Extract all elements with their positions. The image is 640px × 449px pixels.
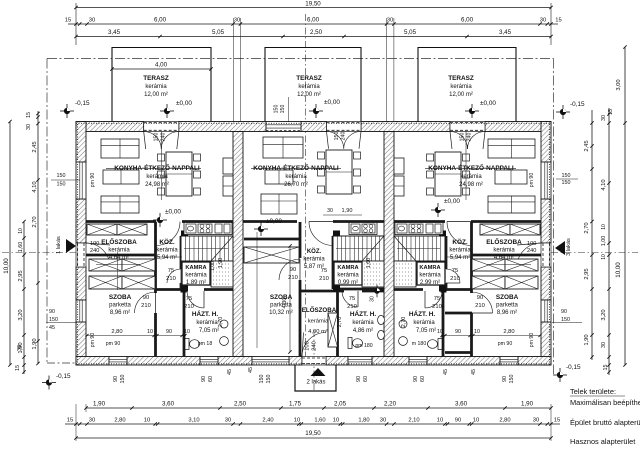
apt2 sofa 1 [263,137,303,158]
svg-text:240: 240 [90,248,99,254]
apt1 washer [220,337,229,346]
svg-text:±0,00: ±0,00 [176,100,192,107]
svg-text:10: 10 [473,418,479,424]
svg-text:0,99 m²: 0,99 m² [338,280,358,286]
apt3 washer [399,337,408,346]
svg-text:150: 150 [154,133,160,142]
svg-text:-0,15: -0,15 [570,101,585,108]
svg-text:1,90: 1,90 [342,208,353,214]
svg-text:75: 75 [186,296,192,302]
svg-text:10: 10 [437,418,443,424]
svg-text:SZOBA: SZOBA [496,294,519,301]
svg-text:2,45: 2,45 [32,141,38,152]
apt3 wardrobes elo [480,224,510,235]
bottom dim total [76,437,551,439]
svg-text:2,50: 2,50 [310,29,323,36]
entrance door apt1 [76,243,86,267]
svg-text:kerámia: kerámia [285,174,307,180]
svg-text:kerámia: kerámia [308,319,329,325]
entrance door apt3 [541,243,551,267]
unit split line [305,14,307,362]
apt1 hazt door arc [187,291,204,308]
svg-text:210: 210 [288,275,298,281]
svg-text:15: 15 [608,109,614,115]
svg-text:150: 150 [280,105,286,114]
svg-text:pm 90: pm 90 [90,333,96,348]
right dim col upper [591,110,593,360]
apt1 szoba dim [87,335,186,337]
svg-text:ELŐSZOBA: ELŐSZOBA [302,307,337,314]
svg-text:90: 90 [356,376,362,382]
terrace door apt1 [144,122,179,132]
svg-text:m 180: m 180 [412,341,427,347]
apt1 dining table [166,152,192,196]
svg-text:kerámia: kerámia [108,248,130,254]
svg-text:150: 150 [57,182,66,188]
terrace 1 [112,48,211,122]
svg-text:75: 75 [349,296,355,302]
svg-text:2,20: 2,20 [384,401,397,408]
svg-text:5,94 m²: 5,94 m² [450,255,470,261]
svg-text:30: 30 [234,18,240,24]
terrace door apt3 [450,122,485,132]
svg-text:210: 210 [450,276,460,282]
svg-text:75: 75 [321,268,327,274]
svg-text:30: 30 [17,345,23,351]
svg-text:24,98 m²: 24,98 m² [459,182,483,188]
svg-text:KÖZ.: KÖZ. [159,237,174,246]
svg-text:12,00 m²: 12,00 m² [449,92,473,98]
leader line apt3 koz [445,256,471,258]
apt1 coffee table [103,170,139,184]
svg-text:10,32 m²: 10,32 m² [269,310,293,316]
apt1 koz bottom / hazt top [155,288,186,291]
outer wall top [76,122,144,132]
svg-text:150: 150 [509,375,515,384]
svg-text:±0,00: ±0,00 [266,218,282,225]
svg-text:kerámia: kerámia [460,174,482,180]
svg-text:kerámia: kerámia [185,273,207,279]
apt1 vertical partition elo/koz [154,222,157,293]
svg-text:150: 150 [259,375,265,384]
svg-text:2,70: 2,70 [218,317,224,328]
svg-text:1,89 m²: 1,89 m² [186,280,206,286]
level markers [60,104,74,118]
svg-text:150: 150 [562,173,571,179]
leader line apt2 title [251,167,341,169]
apt2 entrance porch [295,365,336,391]
svg-text:1,90: 1,90 [93,401,106,408]
svg-text:4,64 m²: 4,64 m² [109,255,129,261]
apt1 wardrobes elo [87,224,117,235]
svg-text:150: 150 [460,133,466,142]
apt2 dining table [326,150,352,194]
svg-text:90: 90 [413,376,419,382]
svg-text:24,98 m²: 24,98 m² [145,182,169,188]
stairs apt2 [333,236,384,261]
svg-text:3,20: 3,20 [601,309,607,320]
svg-text:10,00: 10,00 [3,258,10,274]
svg-text:HÁZT. H.: HÁZT. H. [409,309,435,318]
svg-text:90: 90 [201,376,207,382]
svg-text:2,95: 2,95 [584,268,590,279]
partition living/back apt1 [86,220,156,223]
svg-text:19,50: 19,50 [305,1,321,8]
svg-text:-0,15: -0,15 [56,373,71,380]
svg-text:15: 15 [67,418,73,424]
stairs apt3 [394,236,445,261]
svg-text:2,50: 2,50 [234,401,247,408]
apt3 sink [399,320,407,328]
apt2 szoba door arc [279,259,300,280]
apt1 wardrobes szoba [89,259,122,271]
svg-text:SZOBA: SZOBA [109,294,132,301]
apt2 wardrobes szoba [244,247,299,263]
svg-text:12,00 m²: 12,00 m² [297,92,321,98]
svg-text:8,96 m²: 8,96 m² [110,310,130,316]
apt2 vertical partition szoba/koz [299,222,302,258]
svg-text:2,10: 2,10 [408,418,419,424]
svg-text:pm 90: pm 90 [106,341,121,347]
svg-text:4,30: 4,30 [282,298,288,309]
svg-text:210: 210 [141,303,151,309]
svg-text:kerámia: kerámia [156,248,178,254]
svg-text:kerámia: kerámia [196,320,218,326]
leader line apt3 title [425,167,516,169]
svg-text:±0,00: ±0,00 [480,100,496,107]
svg-text:30: 30 [327,208,333,214]
svg-text:-0,15: -0,15 [566,364,581,371]
apt1 lobby/hazt.h partition [183,289,186,357]
apt3 dining table [435,152,461,196]
right wall windows [541,162,551,199]
svg-text:100: 100 [90,241,99,247]
svg-text:90: 90 [166,329,172,335]
svg-text:75: 75 [434,296,440,302]
svg-text:kerámia: kerámia [449,248,471,254]
apt3 lobby walls [445,312,472,315]
svg-text:ELŐSZOBA: ELŐSZOBA [101,237,137,246]
svg-text:HÁZT. H.: HÁZT. H. [192,309,218,318]
svg-text:1,80: 1,80 [358,418,369,424]
svg-text:150: 150 [120,375,126,384]
apt3 szoba door arc [472,292,493,313]
svg-text:2,95: 2,95 [18,270,24,281]
svg-text:parketta: parketta [496,303,518,309]
svg-text:210: 210 [347,304,357,310]
apt3 tv cabinet [394,176,404,196]
right dim terrace 3,00 [624,47,626,123]
apt3 sofa 1 [488,139,535,158]
svg-text:kerámia: kerámia [413,320,435,326]
svg-text:kerámia: kerámia [145,84,167,90]
svg-text:kerámia: kerámia [450,84,472,90]
apt2 coffee table [265,170,293,184]
apt3 kamra door arc [446,269,460,283]
kitchen apt3 [395,223,443,235]
apt1 kamra door arc [167,269,181,283]
apt2 toilet [348,338,363,349]
svg-text:KAMRA: KAMRA [419,265,440,271]
svg-text:parketta: parketta [109,303,131,309]
kamra boxes [182,262,210,285]
apt3 szoba dim [441,335,540,337]
svg-text:75: 75 [452,268,458,274]
top dimension line 3,45/5,05/2,50 [74,29,552,38]
apt3 sofa 2 [488,196,535,213]
svg-text:5,05: 5,05 [212,29,225,36]
apt1 toilet [185,339,200,350]
svg-text:3,00: 3,00 [616,79,622,90]
svg-text:1,90: 1,90 [32,338,38,349]
svg-text:5,05: 5,05 [404,29,417,36]
apt2 koz/elo partition [300,290,338,293]
svg-text:30: 30 [370,296,376,302]
svg-text:90: 90 [290,267,296,273]
svg-text:3,60: 3,60 [162,401,175,408]
svg-text:1,90: 1,90 [521,401,534,408]
svg-text:2,80: 2,80 [503,329,514,335]
svg-text:45: 45 [227,369,233,375]
junction post [441,287,447,293]
svg-text:Hasznos alapterület: Hasznos alapterület [570,437,635,446]
svg-text:2,80: 2,80 [114,418,125,424]
svg-text:TERASZ: TERASZ [448,75,474,82]
svg-text:2,70: 2,70 [32,216,38,227]
svg-text:60: 60 [208,376,214,382]
svg-text:30: 30 [601,342,607,348]
svg-text:1,90: 1,90 [584,334,590,345]
svg-text:100: 100 [527,241,536,247]
svg-text:10: 10 [18,228,24,234]
svg-text:90: 90 [477,295,483,301]
left wall windows [76,162,86,199]
svg-text:1,00: 1,00 [601,236,607,247]
leader line apt1 elo [96,264,140,266]
svg-text:kerámia: kerámia [419,273,441,279]
svg-text:30: 30 [601,115,607,121]
apt1 tv cabinet [223,176,233,196]
svg-text:150: 150 [49,317,58,323]
svg-text:kerámia: kerámia [352,320,374,326]
svg-text:10: 10 [144,418,150,424]
svg-text:90: 90 [49,309,55,315]
apt1 sofa 1 [101,139,139,158]
svg-text:3,45: 3,45 [499,29,512,36]
left dim col rooms upper [37,111,39,364]
bearing wall B [384,132,394,357]
svg-text:10: 10 [184,329,190,335]
svg-text:3,45: 3,45 [108,29,121,36]
svg-text:3,60: 3,60 [455,401,468,408]
apt2 kamra walls [332,236,335,289]
svg-text:5,94 m²: 5,94 m² [157,255,177,261]
entrance door apt2 bottom [302,357,326,366]
terrace window apt2 [266,122,301,132]
insulation dots [76,122,551,124]
svg-text:15: 15 [26,112,32,118]
svg-text:210: 210 [166,276,176,282]
svg-text:ELŐSZOBA: ELŐSZOBA [486,237,522,246]
svg-text:6,00: 6,00 [154,17,167,24]
svg-text:150: 150 [274,105,280,114]
svg-text:90: 90 [455,329,461,335]
apt2 shower [328,313,338,347]
svg-text:150: 150 [57,173,66,179]
svg-text:4,10: 4,10 [601,179,607,190]
svg-text:4,00 m²: 4,00 m² [308,329,328,335]
svg-text:2,70: 2,70 [401,317,407,328]
svg-text:30: 30 [89,418,95,424]
svg-text:3,10: 3,10 [188,418,199,424]
svg-text:2,80: 2,80 [499,418,510,424]
svg-text:30: 30 [540,18,546,24]
svg-text:2,80: 2,80 [111,329,122,335]
bearing wall A [233,132,243,357]
left dim total 10,00 [9,122,11,366]
svg-text:90: 90 [455,418,461,424]
svg-text:6,00: 6,00 [307,17,320,24]
svg-text:4,86 m²: 4,86 m² [353,328,373,334]
svg-text:KONYHA-ÉTKEZŐ-NAPPALI: KONYHA-ÉTKEZŐ-NAPPALI [253,163,339,172]
apt3 coffee table [495,170,527,184]
svg-text:TERASZ: TERASZ [296,75,322,82]
apt3 toilet [428,339,443,350]
svg-text:90: 90 [561,309,567,315]
svg-text:KÖZ.: KÖZ. [307,248,322,255]
svg-text:45: 45 [248,367,254,373]
svg-text:10: 10 [601,224,607,230]
svg-text:KAMRA: KAMRA [185,265,206,271]
svg-text:kerámia: kerámia [298,84,320,90]
svg-text:26,70 m²: 26,70 m² [284,182,308,188]
svg-text:240: 240 [312,341,318,351]
svg-text:8,96 m²: 8,96 m² [497,310,517,316]
svg-text:4,64 m²: 4,64 m² [494,255,514,261]
right dim col inner [608,108,610,375]
svg-text:KONYHA-ÉTKEZŐ-NAPPALI: KONYHA-ÉTKEZŐ-NAPPALI [428,163,514,172]
svg-text:±0,00: ±0,00 [444,198,460,205]
svg-text:45: 45 [443,369,449,375]
partition living/back apt2 [243,220,297,223]
svg-text:kerámia: kerámia [493,248,515,254]
svg-text:±0,00: ±0,00 [324,99,340,106]
svg-text:30: 30 [387,18,393,24]
apt2 elo/hazt.h partition [336,291,339,357]
apt1 koz-living door arc [156,222,180,246]
svg-text:75: 75 [168,268,174,274]
svg-text:kerámia: kerámia [337,273,359,279]
apt3 kamra walls [445,236,448,269]
bottom dim line rooms [86,407,551,409]
apt2 koz-living door arc [309,222,333,246]
svg-text:1 lakás: 1 lakás [56,236,62,254]
svg-text:10: 10 [601,254,607,260]
svg-text:2,70: 2,70 [584,222,590,233]
partition living/back apt3 [394,220,445,223]
svg-text:240: 240 [341,132,347,141]
svg-text:60: 60 [420,376,426,382]
svg-text:2,40: 2,40 [262,418,273,424]
svg-text:Telek területe:: Telek területe: [570,387,616,396]
svg-text:3 lakás: 3 lakás [566,238,572,256]
svg-text:2 lakás: 2 lakás [306,380,325,386]
bottom dim line detail [65,423,560,425]
bottom windows [109,357,127,366]
svg-text:10: 10 [437,329,443,335]
svg-text:2,70: 2,70 [337,317,343,328]
svg-text:240: 240 [467,133,473,142]
svg-text:210: 210 [432,304,442,310]
apt1 elo/szoba partition [86,254,155,257]
svg-text:15: 15 [554,418,560,424]
svg-text:100: 100 [305,341,311,351]
svg-text:HÁZT. H.: HÁZT. H. [350,309,376,318]
svg-text:2,05: 2,05 [334,401,347,408]
apt2 hazt door arc [342,291,358,307]
svg-text:30: 30 [225,418,231,424]
leader line apt2 szoba [256,232,258,348]
terrace1 dim 4,00 [110,62,212,71]
svg-text:60: 60 [363,376,369,382]
section line apt1 [161,132,163,201]
svg-text:15: 15 [603,365,609,371]
svg-text:±0,00: ±0,00 [165,209,181,216]
svg-text:1,90: 1,90 [218,258,224,269]
outer wall bottom [76,357,109,366]
svg-text:pm 90: pm 90 [498,341,513,347]
svg-text:30: 30 [380,418,386,424]
site boundary dashed [2,59,638,375]
apt3 koz-living door arc [447,222,471,246]
svg-text:150: 150 [561,317,570,323]
svg-text:KÖZ.: KÖZ. [452,237,467,246]
svg-text:45: 45 [49,325,55,331]
apt2 sofa 2 [261,194,297,214]
outer wall right [541,122,551,163]
svg-text:KAMRA: KAMRA [337,265,358,271]
apt3 vertical partition koz/elo [470,222,473,293]
svg-text:150: 150 [334,132,340,141]
stairs apt1 [181,236,233,261]
svg-text:kerámia: kerámia [146,174,168,180]
svg-text:1,60: 1,60 [18,242,24,253]
svg-text:KONYHA-ÉTKEZŐ-NAPPALI: KONYHA-ÉTKEZŐ-NAPPALI [114,163,200,172]
svg-text:TERASZ: TERASZ [143,75,169,82]
svg-text:2,99 m²: 2,99 m² [420,280,440,286]
svg-text:kerámia: kerámia [303,257,325,263]
svg-text:7,05 m²: 7,05 m² [416,328,436,334]
section line apt3 [465,132,467,201]
svg-text:210: 210 [319,276,329,282]
leader line apt1 koz [156,256,182,258]
terrace 3 [418,48,516,122]
apt1 kamra walls [180,236,183,269]
leader line apt1 title [106,167,201,169]
svg-text:90: 90 [143,295,149,301]
apt3 koz bottom / hazt top [394,288,423,291]
svg-text:pm 90: pm 90 [90,173,96,188]
svg-text:90: 90 [113,376,119,382]
left dim col rooms lower [23,222,25,375]
svg-text:pm 180: pm 180 [355,343,372,349]
svg-text:30: 30 [89,18,95,24]
kitchen apt1 [184,223,232,235]
top dimension line segments [65,17,562,26]
terrace 2 [265,48,361,122]
svg-text:10,00: 10,00 [615,262,622,278]
svg-text:30: 30 [533,418,539,424]
